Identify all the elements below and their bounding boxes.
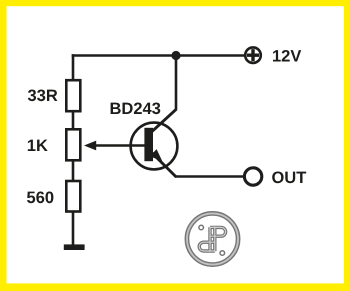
label 560 — [27, 192, 53, 204]
wire left vertical from rail to 33R — [72, 54, 75, 81]
wire 560 to ground — [72, 211, 75, 246]
wire collector diagonal into transistor — [151, 109, 177, 132]
terminal OUT — [244, 168, 261, 185]
resistor R2 1K (pot element) — [66, 129, 80, 160]
label 33R — [28, 90, 58, 102]
wire between 33R and 1K — [72, 111, 75, 130]
wire collector vertical from rail junction — [175, 56, 178, 110]
ground — [64, 244, 85, 250]
resistor R1 33R — [66, 80, 80, 111]
label 12V — [273, 50, 301, 62]
resistor R3 560 — [66, 181, 80, 212]
transistor base bar — [144, 128, 153, 161]
transistor emitter arrowhead — [150, 149, 163, 161]
transistor emitter diagonal — [150, 151, 177, 178]
terminal +12V — [245, 47, 261, 63]
logo emblem (gray dP monogram) — [185, 212, 239, 266]
wire between 1K and 560 — [72, 160, 75, 182]
label BD243 — [111, 103, 161, 115]
node junction dot at rail — [171, 51, 180, 60]
wire wiper arrow line from base to 1K — [94, 144, 146, 147]
wiper arrowhead at 1K — [84, 141, 96, 151]
transistor Q1 BD243 circle — [131, 123, 178, 170]
wire emitter horizontal to OUT — [175, 175, 244, 178]
label 1K — [28, 140, 48, 151]
wire top horizontal (V+ rail) — [72, 54, 245, 57]
label OUT — [272, 172, 306, 184]
